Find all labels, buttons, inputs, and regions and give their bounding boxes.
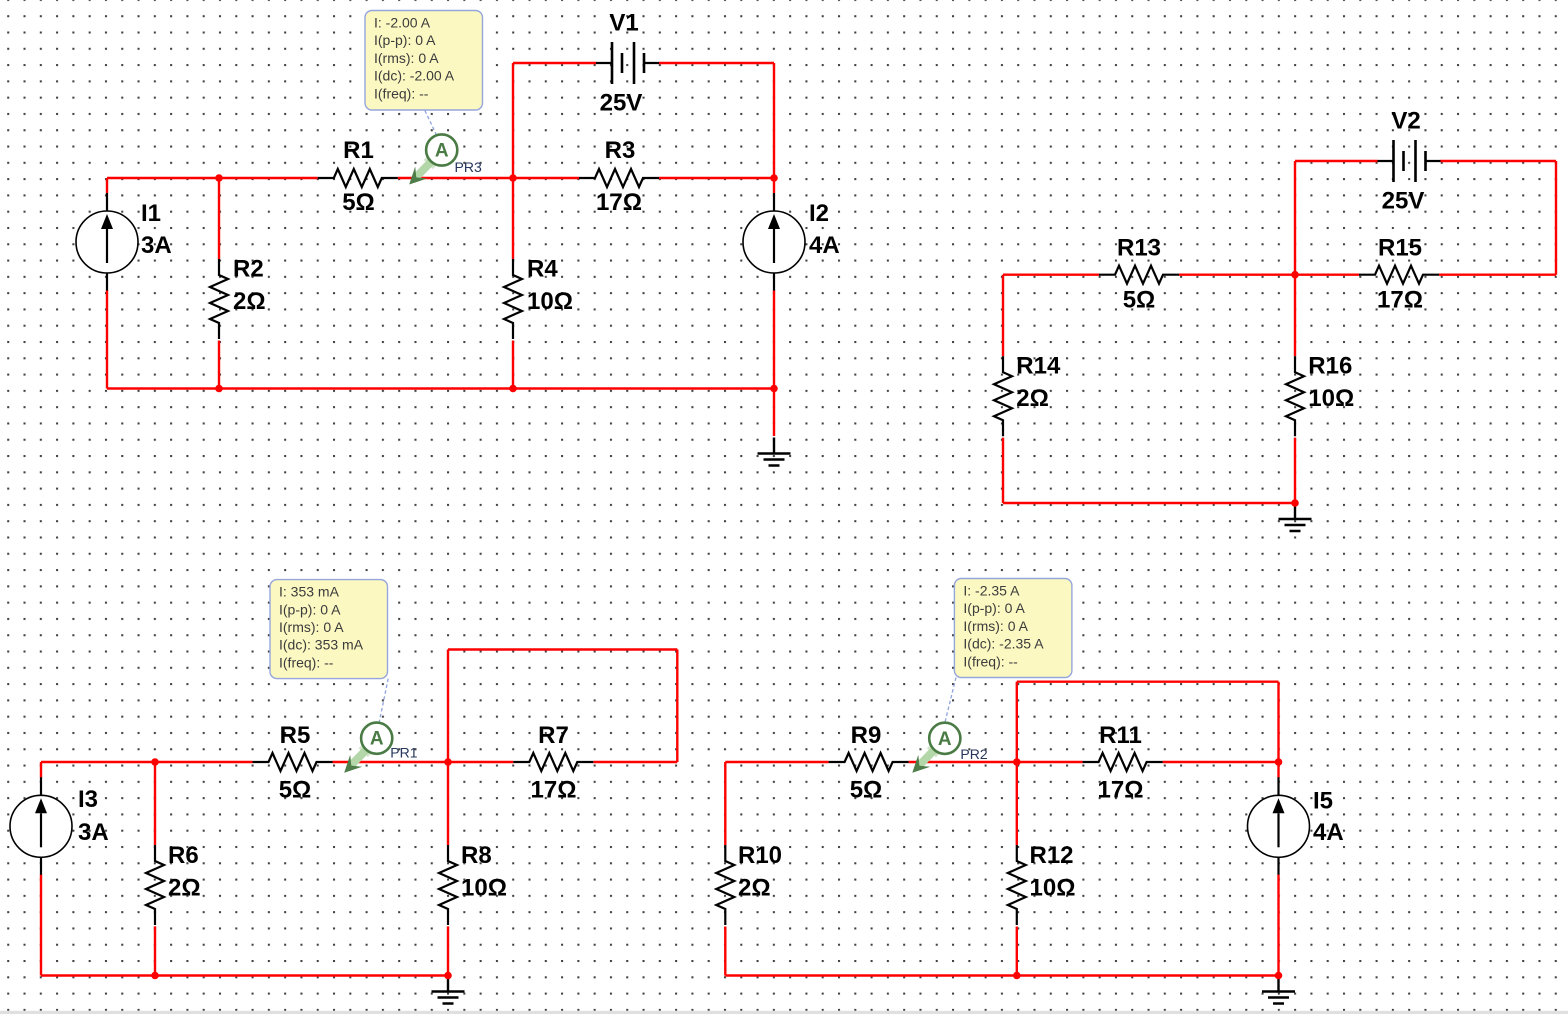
svg-text:R13: R13	[1117, 235, 1161, 262]
svg-text:17Ω: 17Ω	[1377, 287, 1423, 314]
svg-text:2Ω: 2Ω	[738, 874, 771, 901]
svg-text:I5: I5	[1313, 788, 1333, 815]
svg-text:10Ω: 10Ω	[1308, 385, 1354, 412]
svg-text:5Ω: 5Ω	[279, 776, 312, 803]
svg-text:R1: R1	[343, 137, 374, 164]
svg-text:A: A	[938, 729, 952, 750]
svg-text:I(p-p): 0 A: I(p-p): 0 A	[374, 32, 436, 48]
svg-text:R2: R2	[233, 256, 264, 283]
svg-text:R14: R14	[1016, 353, 1061, 380]
svg-text:I(freq): --: I(freq): --	[279, 654, 334, 670]
svg-text:I(p-p): 0 A: I(p-p): 0 A	[963, 600, 1025, 616]
svg-text:R6: R6	[168, 842, 199, 869]
svg-text:2Ω: 2Ω	[1016, 385, 1049, 412]
svg-text:R5: R5	[280, 722, 311, 749]
svg-text:I(dc): 353 mA: I(dc): 353 mA	[279, 637, 364, 653]
svg-text:R11: R11	[1099, 722, 1142, 749]
svg-text:25V: 25V	[1382, 188, 1425, 215]
svg-text:I(dc): -2.35 A: I(dc): -2.35 A	[963, 636, 1044, 652]
svg-text:I(rms): 0 A: I(rms): 0 A	[374, 50, 439, 66]
svg-text:I: -2.35 A: I: -2.35 A	[963, 583, 1020, 599]
svg-text:V1: V1	[609, 10, 638, 37]
svg-text:17Ω: 17Ω	[531, 776, 577, 803]
svg-text:A: A	[370, 729, 384, 750]
svg-text:R12: R12	[1030, 842, 1074, 869]
svg-text:4A: 4A	[1313, 819, 1344, 846]
svg-text:25V: 25V	[600, 90, 643, 117]
svg-text:R10: R10	[738, 842, 782, 869]
svg-text:R3: R3	[605, 137, 636, 164]
svg-text:V2: V2	[1391, 108, 1420, 135]
svg-text:5Ω: 5Ω	[850, 776, 883, 803]
svg-text:I(freq): --: I(freq): --	[374, 85, 429, 101]
svg-text:I(freq): --: I(freq): --	[963, 653, 1018, 669]
svg-text:R16: R16	[1308, 353, 1352, 380]
svg-text:PR2: PR2	[960, 746, 987, 762]
svg-text:R7: R7	[538, 722, 569, 749]
svg-text:PR1: PR1	[390, 745, 417, 761]
svg-text:I: -2.00 A: I: -2.00 A	[374, 15, 431, 31]
svg-text:4A: 4A	[809, 232, 840, 259]
svg-text:I1: I1	[141, 200, 161, 227]
svg-text:2Ω: 2Ω	[233, 288, 266, 315]
svg-text:I: 353 mA: I: 353 mA	[279, 584, 340, 600]
svg-text:R4: R4	[527, 256, 558, 283]
svg-text:I(rms): 0 A: I(rms): 0 A	[963, 618, 1028, 634]
svg-text:10Ω: 10Ω	[527, 288, 573, 315]
svg-text:R9: R9	[851, 722, 882, 749]
svg-text:I2: I2	[809, 200, 829, 227]
svg-text:I3: I3	[78, 786, 98, 813]
svg-text:10Ω: 10Ω	[461, 874, 507, 901]
svg-text:17Ω: 17Ω	[596, 189, 642, 216]
svg-text:2Ω: 2Ω	[168, 874, 201, 901]
svg-text:R15: R15	[1378, 235, 1422, 262]
svg-text:R8: R8	[461, 842, 492, 869]
svg-text:10Ω: 10Ω	[1030, 874, 1076, 901]
svg-text:A: A	[435, 141, 449, 162]
svg-text:I(dc): -2.00 A: I(dc): -2.00 A	[374, 68, 455, 84]
svg-text:I(rms): 0 A: I(rms): 0 A	[279, 619, 344, 635]
svg-text:5Ω: 5Ω	[1123, 287, 1156, 314]
svg-text:I(p-p): 0 A: I(p-p): 0 A	[279, 601, 341, 617]
svg-text:PR3: PR3	[455, 159, 482, 175]
svg-text:17Ω: 17Ω	[1098, 776, 1144, 803]
svg-text:5Ω: 5Ω	[342, 189, 375, 216]
svg-text:3A: 3A	[141, 232, 172, 259]
svg-text:3A: 3A	[78, 819, 109, 846]
